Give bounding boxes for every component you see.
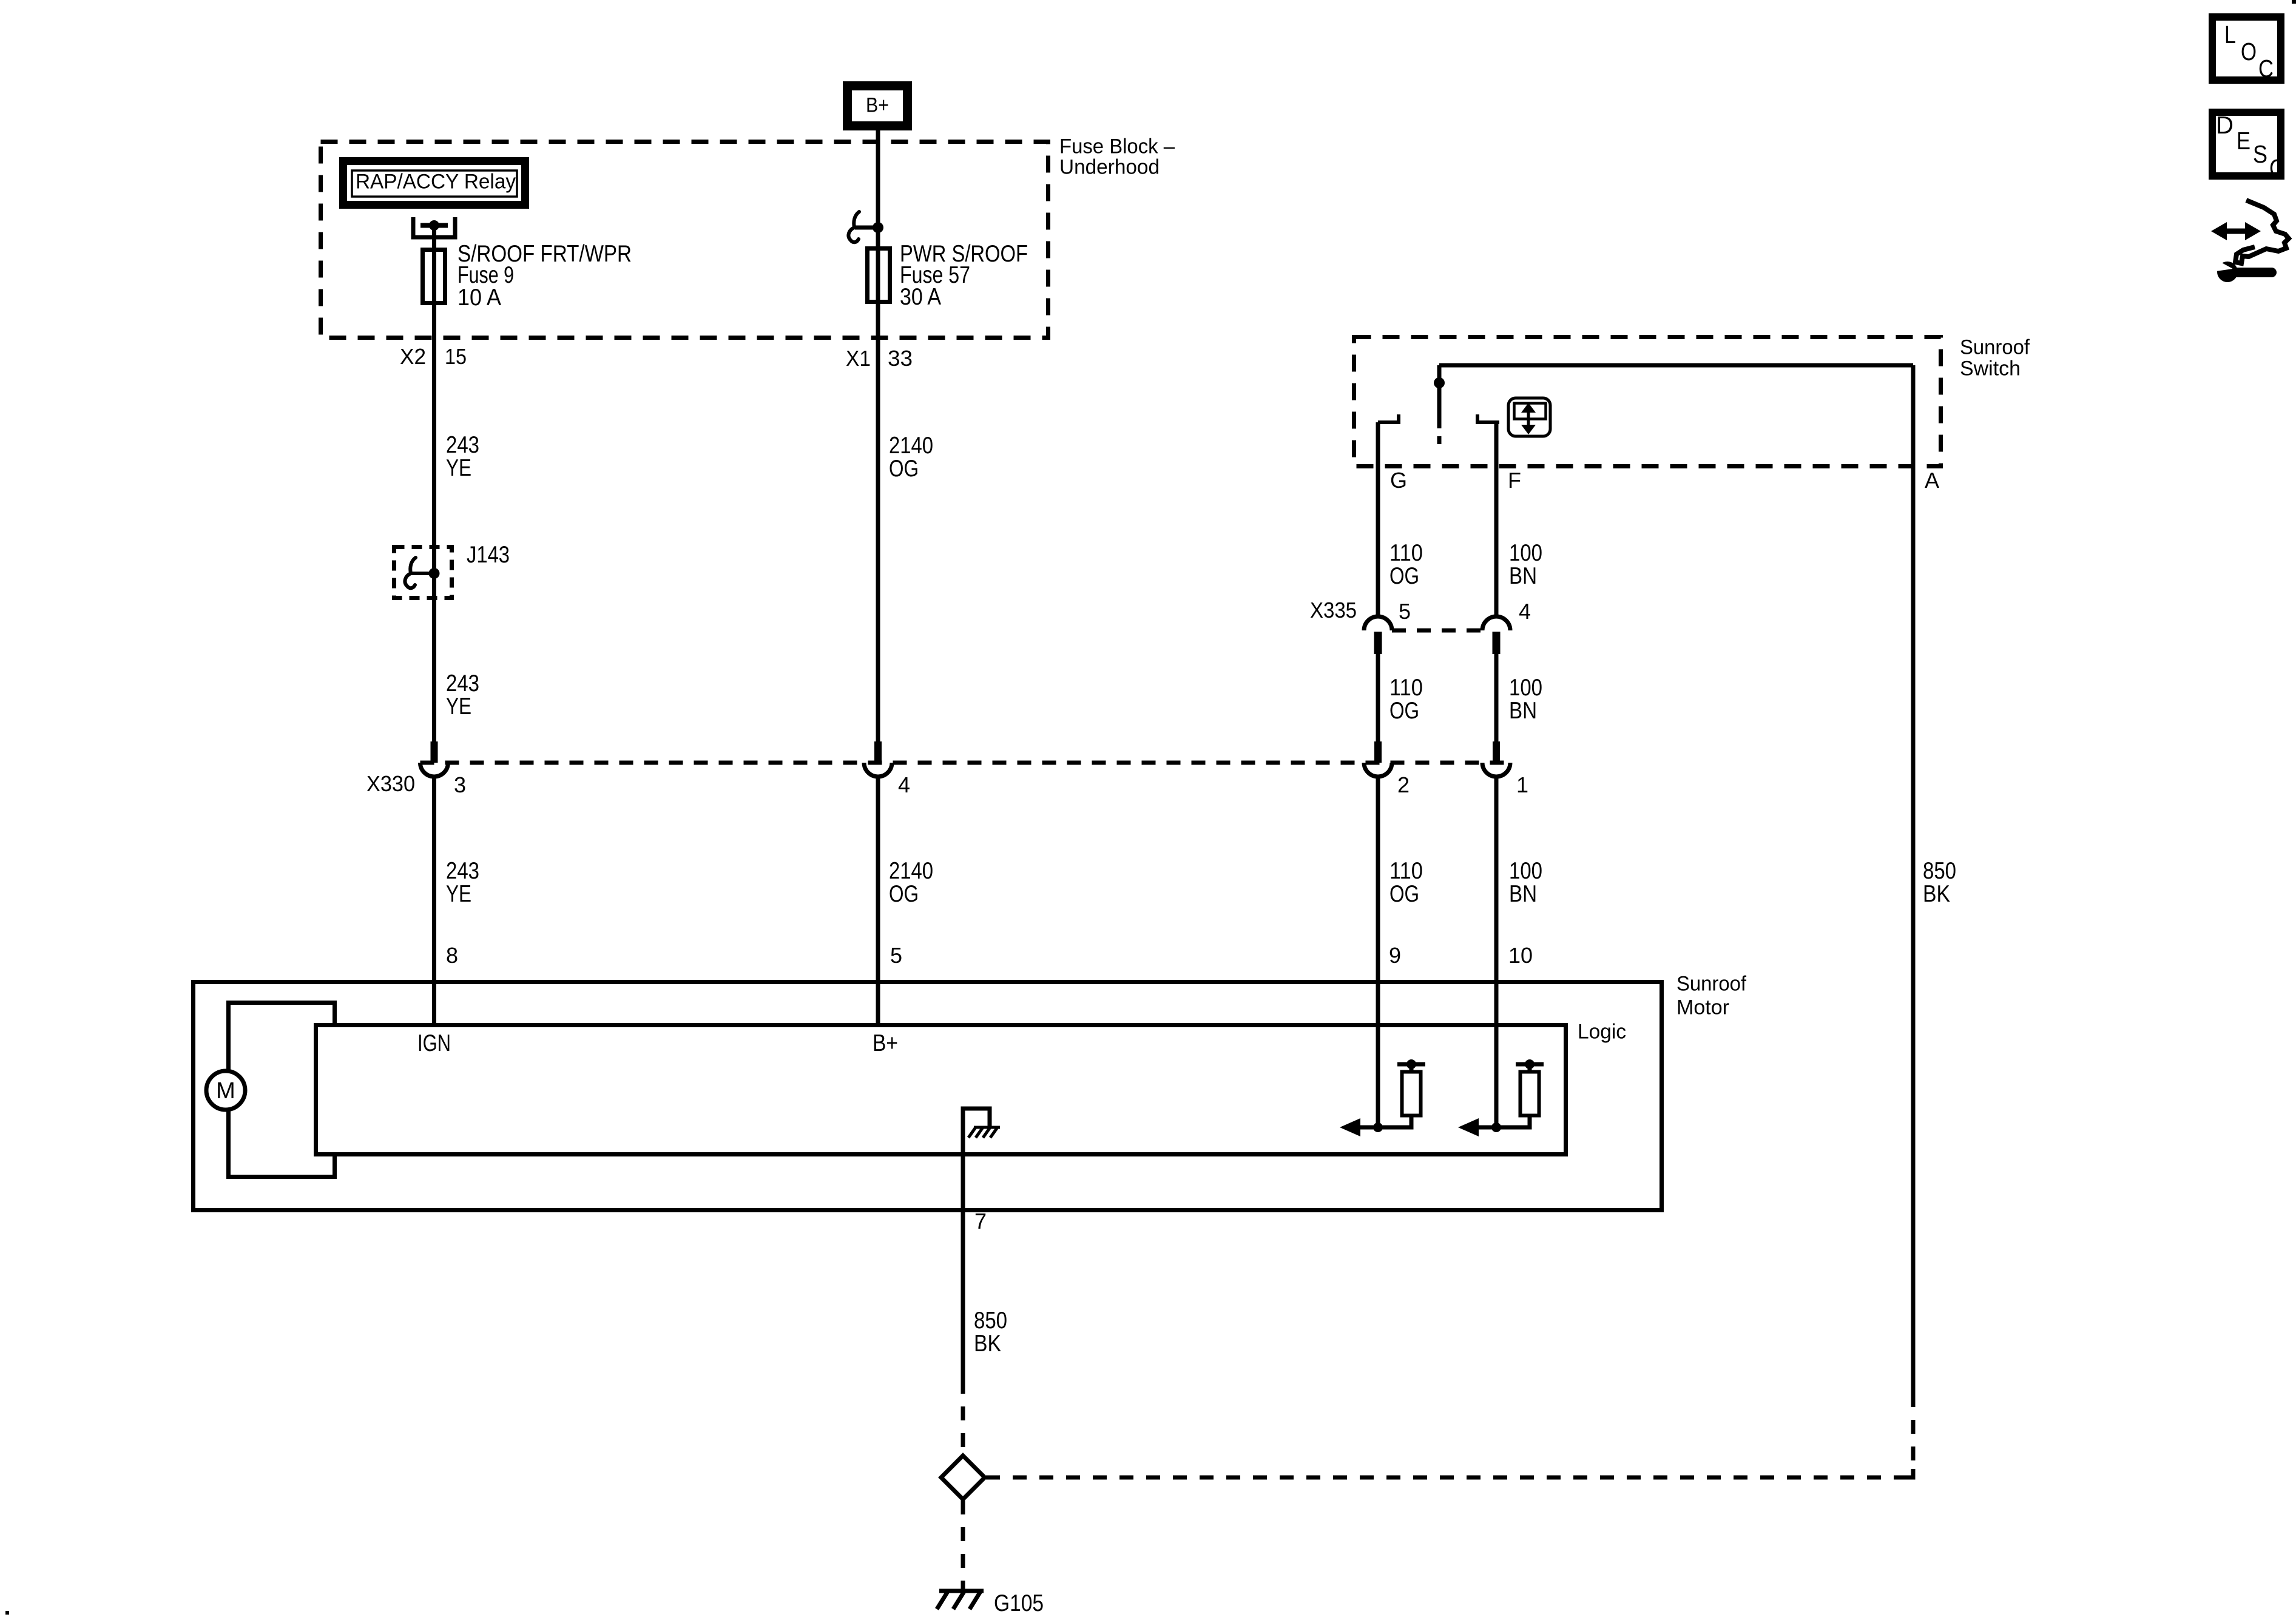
svg-text:C: C — [2258, 55, 2274, 83]
svg-text:E: E — [2237, 127, 2250, 155]
svg-text:110: 110 — [1389, 540, 1423, 566]
svg-text:3: 3 — [454, 772, 466, 797]
svg-text:B+: B+ — [873, 1030, 898, 1056]
svg-text:M: M — [216, 1078, 235, 1104]
svg-text:243: 243 — [446, 432, 479, 458]
svg-text:5: 5 — [1399, 599, 1411, 624]
svg-text:Logic: Logic — [1578, 1021, 1626, 1044]
svg-text:10 A: 10 A — [458, 285, 501, 311]
svg-text:BN: BN — [1509, 563, 1537, 589]
svg-text:15: 15 — [445, 344, 467, 369]
svg-text:Switch: Switch — [1960, 357, 2021, 380]
svg-text:100: 100 — [1509, 540, 1542, 566]
svg-text:X1: X1 — [846, 346, 871, 371]
svg-text:BN: BN — [1509, 881, 1537, 907]
svg-text:D: D — [2216, 111, 2234, 139]
svg-text:850: 850 — [974, 1308, 1007, 1334]
svg-text:BK: BK — [1923, 881, 1950, 907]
svg-text:IGN: IGN — [417, 1030, 451, 1056]
svg-text:30 A: 30 A — [900, 284, 941, 310]
svg-text:110: 110 — [1389, 858, 1423, 884]
svg-text:Sunroof: Sunroof — [1960, 336, 2030, 359]
svg-text:A: A — [1925, 468, 1939, 493]
svg-text:F: F — [1508, 468, 1521, 493]
svg-text:1: 1 — [1516, 772, 1528, 797]
svg-text:243: 243 — [446, 858, 479, 884]
svg-text:4: 4 — [898, 772, 910, 797]
svg-text:Motor: Motor — [1676, 996, 1729, 1019]
svg-text:YE: YE — [446, 455, 471, 481]
svg-text:Fuse Block –: Fuse Block – — [1059, 135, 1175, 158]
svg-text:OG: OG — [889, 881, 919, 907]
svg-text:243: 243 — [446, 670, 479, 697]
svg-text:100: 100 — [1509, 858, 1542, 884]
svg-text:2140: 2140 — [889, 433, 933, 459]
svg-text:OG: OG — [1389, 698, 1419, 724]
svg-text:RAP/ACCY Relay: RAP/ACCY Relay — [356, 170, 516, 194]
svg-text:X330: X330 — [366, 771, 415, 796]
svg-text:YE: YE — [446, 694, 471, 720]
svg-text:G105: G105 — [994, 1590, 1044, 1616]
svg-text:X335: X335 — [1310, 598, 1357, 623]
svg-text:B+: B+ — [866, 94, 889, 117]
svg-text:4: 4 — [1519, 599, 1531, 624]
svg-text:OG: OG — [1389, 563, 1419, 589]
svg-text:J143: J143 — [467, 542, 510, 568]
svg-text:L: L — [2224, 21, 2236, 49]
svg-text:5: 5 — [890, 943, 902, 968]
svg-text:9: 9 — [1389, 943, 1401, 968]
svg-text:C: C — [2269, 154, 2284, 182]
svg-text:OG: OG — [889, 456, 919, 482]
svg-text:110: 110 — [1389, 675, 1423, 701]
svg-text:2: 2 — [1397, 772, 1410, 797]
svg-text:850: 850 — [1923, 858, 1956, 884]
svg-text:G: G — [1390, 468, 1407, 493]
svg-text:2140: 2140 — [889, 858, 933, 884]
svg-text:OG: OG — [1389, 881, 1419, 907]
svg-text:BN: BN — [1509, 698, 1537, 724]
svg-text:YE: YE — [446, 881, 471, 907]
svg-text:Underhood: Underhood — [1059, 156, 1160, 179]
svg-text:BK: BK — [974, 1331, 1001, 1357]
svg-text:33: 33 — [888, 346, 913, 371]
svg-text:8: 8 — [446, 943, 458, 968]
svg-text:Sunroof: Sunroof — [1676, 973, 1747, 996]
svg-text:S: S — [2253, 140, 2267, 168]
svg-text:7: 7 — [974, 1209, 987, 1234]
svg-text:O: O — [2241, 38, 2257, 66]
svg-text:100: 100 — [1509, 675, 1542, 701]
svg-text:X2: X2 — [400, 344, 426, 369]
svg-text:10: 10 — [1508, 943, 1533, 968]
